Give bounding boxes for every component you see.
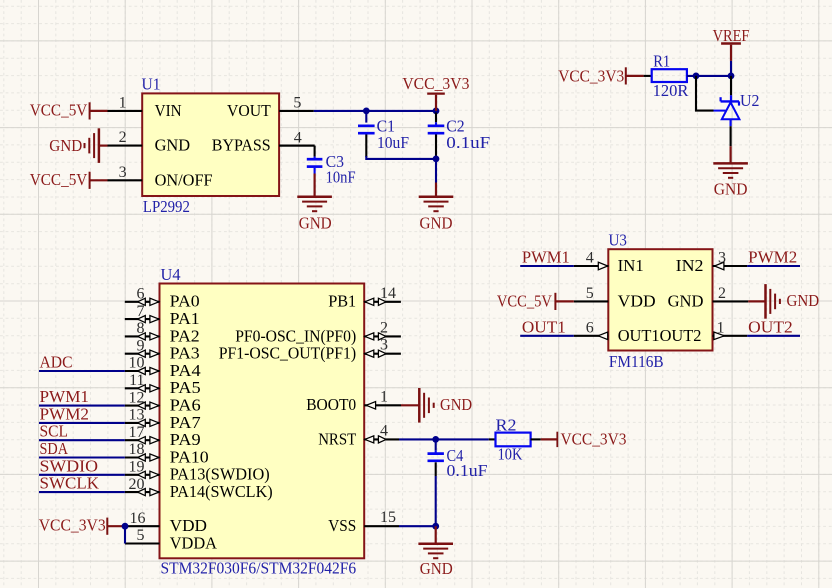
svg-text:IN1: IN1 bbox=[618, 256, 644, 275]
svg-text:5: 5 bbox=[586, 285, 594, 302]
svg-text:VCC_3V3: VCC_3V3 bbox=[561, 429, 627, 448]
U4 pin 9 PA3 bbox=[125, 353, 160, 355]
wire PWM1 bbox=[39, 405, 125, 407]
wire R1 to VREF node bbox=[687, 75, 731, 77]
wire junction to U2 reference bbox=[696, 76, 714, 111]
U3 pin 5 VDD bbox=[574, 300, 609, 302]
svg-text:PA7: PA7 bbox=[170, 413, 201, 432]
U4 pin 10 PA4 bbox=[125, 370, 160, 372]
U4 pin 11 PA5 bbox=[125, 387, 160, 389]
svg-text:LP2992: LP2992 bbox=[143, 197, 190, 216]
svg-text:PF1-OSC_OUT(PF1): PF1-OSC_OUT(PF1) bbox=[219, 344, 357, 363]
resistor R2 bbox=[496, 433, 531, 447]
svg-text:GND: GND bbox=[714, 179, 748, 198]
svg-text:120R: 120R bbox=[653, 81, 689, 100]
U4 pin 2 PF0-OSC_IN bbox=[364, 335, 401, 337]
svg-text:PF0-OSC_IN(PF0): PF0-OSC_IN(PF0) bbox=[235, 326, 356, 345]
capacitor C4 bbox=[435, 439, 437, 450]
U3 pin 2 GND bbox=[713, 300, 749, 302]
svg-text:1: 1 bbox=[119, 95, 127, 112]
wire SWCLK bbox=[39, 491, 125, 493]
U1 pin 5 VOUT bbox=[279, 110, 314, 112]
svg-text:15: 15 bbox=[380, 509, 396, 526]
U4 pin 3 PF1-OSC_OUT bbox=[364, 353, 401, 355]
U3 pin 1 OUT2 bbox=[713, 335, 748, 337]
wire junction to U2 cathode bbox=[730, 76, 732, 95]
svg-text:OUT1: OUT1 bbox=[522, 318, 566, 337]
svg-text:20: 20 bbox=[129, 476, 145, 493]
U4 pin 15 VSS bbox=[364, 525, 399, 527]
svg-text:0.1uF: 0.1uF bbox=[447, 461, 488, 480]
svg-text:PWM1: PWM1 bbox=[40, 387, 90, 406]
wire C4 to VSS bbox=[435, 476, 437, 526]
svg-text:GND: GND bbox=[440, 395, 472, 414]
U1 pin 3 ON/OFF bbox=[108, 179, 143, 181]
svg-text:5: 5 bbox=[293, 95, 301, 112]
svg-text:PA3: PA3 bbox=[170, 344, 200, 363]
svg-text:PA13(SWDIO): PA13(SWDIO) bbox=[170, 465, 270, 484]
wire SWDIO bbox=[39, 474, 125, 476]
svg-text:VDDA: VDDA bbox=[170, 533, 217, 552]
U4 pin 14 PB1 bbox=[364, 301, 401, 303]
U4 pin 4 NRST bbox=[364, 438, 399, 440]
svg-text:VCC_3V3: VCC_3V3 bbox=[39, 515, 106, 534]
wire ADC bbox=[39, 370, 125, 372]
wire SDA bbox=[39, 456, 125, 458]
svg-text:PWM2: PWM2 bbox=[748, 248, 797, 267]
wire PWM1 to U3 bbox=[520, 265, 574, 267]
power port GND below C2 bbox=[435, 183, 437, 197]
svg-text:6: 6 bbox=[137, 286, 145, 303]
svg-text:VOUT: VOUT bbox=[227, 101, 271, 120]
svg-text:0.1uF: 0.1uF bbox=[446, 133, 490, 152]
svg-text:IN2: IN2 bbox=[676, 256, 704, 275]
capacitor C1 bbox=[365, 111, 367, 123]
node junction VSS bbox=[432, 523, 439, 530]
U4 pin 12 PA6 bbox=[125, 405, 160, 407]
capacitor C3 bbox=[279, 145, 315, 147]
svg-text:PA10: PA10 bbox=[170, 447, 209, 466]
svg-text:PB1: PB1 bbox=[328, 292, 356, 311]
node junction VDD bbox=[122, 523, 129, 530]
svg-text:PA5: PA5 bbox=[170, 378, 201, 397]
power port GND at BOOT0 bbox=[401, 404, 419, 406]
node junction ref bbox=[693, 73, 700, 80]
svg-text:6: 6 bbox=[586, 319, 594, 336]
power port VCC_3V3 at R2 bbox=[541, 438, 558, 440]
power port GND at U3 pin 2 bbox=[748, 300, 765, 302]
svg-text:2: 2 bbox=[380, 319, 388, 336]
svg-text:PA14(SWCLK): PA14(SWCLK) bbox=[170, 482, 273, 501]
svg-text:NRST: NRST bbox=[318, 429, 356, 448]
svg-text:11: 11 bbox=[129, 372, 144, 389]
svg-text:5: 5 bbox=[137, 527, 145, 544]
svg-text:R1: R1 bbox=[653, 51, 670, 70]
svg-text:SWDIO: SWDIO bbox=[40, 456, 99, 475]
svg-text:VCC_5V: VCC_5V bbox=[497, 291, 552, 310]
svg-text:OUT2: OUT2 bbox=[748, 318, 793, 337]
IC U3 body (FM116B) bbox=[608, 249, 712, 350]
svg-text:U3: U3 bbox=[609, 230, 627, 249]
wire into R2 bbox=[489, 438, 496, 440]
capacitor C2 bbox=[435, 113, 437, 123]
svg-text:OUT2: OUT2 bbox=[660, 326, 702, 345]
U4 pin 20 PA14(SWCLK) bbox=[125, 491, 160, 493]
svg-text:2: 2 bbox=[119, 129, 127, 146]
svg-text:2: 2 bbox=[718, 285, 726, 302]
svg-text:OUT1: OUT1 bbox=[618, 326, 660, 345]
svg-text:PA4: PA4 bbox=[170, 361, 201, 380]
svg-text:9: 9 bbox=[137, 337, 145, 354]
svg-text:PWM1: PWM1 bbox=[522, 248, 570, 267]
U4 pin 6 PA0 bbox=[125, 301, 160, 303]
node junction NRST/C4 bbox=[432, 436, 439, 443]
power port GND below C3 bbox=[314, 174, 316, 197]
svg-text:3: 3 bbox=[380, 337, 388, 354]
U4 pin 17 PA9 bbox=[125, 439, 160, 441]
op-amp U1 body (LP2992 regulator) bbox=[142, 93, 279, 196]
wire VOUT net bbox=[314, 110, 436, 112]
svg-text:GND: GND bbox=[787, 291, 820, 310]
U3 pin 3 IN2 bbox=[713, 265, 748, 267]
wire R2 to VCC_3V3 bbox=[531, 438, 541, 440]
svg-text:VCC_3V3: VCC_3V3 bbox=[402, 74, 469, 93]
svg-text:12: 12 bbox=[129, 389, 145, 406]
svg-text:VCC_5V: VCC_5V bbox=[30, 170, 88, 189]
wire VREF to junction bbox=[730, 61, 732, 76]
svg-text:FM116B: FM116B bbox=[609, 352, 664, 371]
svg-text:4: 4 bbox=[586, 250, 594, 267]
svg-text:GND: GND bbox=[49, 136, 82, 155]
svg-text:U2: U2 bbox=[740, 91, 759, 110]
svg-text:PA2: PA2 bbox=[170, 326, 200, 345]
svg-text:U4: U4 bbox=[161, 265, 181, 284]
svg-text:18: 18 bbox=[129, 441, 145, 458]
U1 pin 2 GND bbox=[108, 145, 143, 147]
U4 pin 8 PA2 bbox=[125, 335, 160, 337]
node junction VREF bbox=[728, 73, 735, 80]
svg-text:GND: GND bbox=[668, 291, 704, 310]
svg-text:STM32F030F6/STM32F042F6: STM32F030F6/STM32F042F6 bbox=[161, 559, 357, 578]
svg-text:U1: U1 bbox=[142, 74, 161, 93]
svg-text:3: 3 bbox=[718, 250, 726, 267]
svg-text:PWM2: PWM2 bbox=[40, 404, 90, 423]
wire VSS to junction bbox=[399, 525, 436, 527]
svg-text:10nF: 10nF bbox=[326, 167, 356, 186]
MCU U4 body (STM32F030F6) bbox=[160, 284, 365, 559]
svg-text:PA0: PA0 bbox=[170, 292, 200, 311]
svg-text:10uF: 10uF bbox=[377, 133, 409, 152]
svg-text:SCL: SCL bbox=[40, 422, 69, 441]
U4 pin 13 PA7 bbox=[125, 422, 160, 424]
wire OUT2 from U3 bbox=[747, 335, 800, 337]
wire VDD to VDDA bbox=[124, 526, 126, 543]
svg-text:13: 13 bbox=[129, 407, 145, 424]
svg-text:14: 14 bbox=[380, 285, 396, 302]
svg-text:1: 1 bbox=[380, 388, 388, 405]
svg-text:7: 7 bbox=[137, 303, 145, 320]
wire PWM2 bbox=[39, 422, 125, 424]
svg-text:VCC_5V: VCC_5V bbox=[30, 100, 88, 119]
U4 pin 7 PA1 bbox=[125, 318, 160, 320]
svg-text:3: 3 bbox=[119, 164, 127, 181]
svg-text:GND: GND bbox=[155, 136, 191, 155]
node junction C2 bottom bbox=[433, 156, 440, 163]
U4 pin 19 PA13(SWDIO) bbox=[125, 474, 160, 476]
wire C2 bottom to GND bbox=[435, 159, 437, 183]
U4 pin 1 BOOT0 bbox=[364, 404, 401, 406]
svg-text:VDD: VDD bbox=[170, 516, 207, 535]
wire PWM2 from U3 bbox=[747, 265, 800, 267]
svg-text:4: 4 bbox=[294, 129, 302, 146]
svg-text:GND: GND bbox=[420, 559, 453, 578]
svg-text:PA1: PA1 bbox=[170, 309, 200, 328]
svg-text:10: 10 bbox=[129, 355, 145, 372]
shunt reference U2 (zener symbol) bbox=[730, 95, 732, 101]
wire NRST net bbox=[399, 438, 489, 440]
svg-text:PA9: PA9 bbox=[170, 430, 201, 449]
svg-text:VSS: VSS bbox=[328, 516, 356, 535]
svg-text:8: 8 bbox=[137, 320, 145, 337]
wire C1 to C2 bottom bbox=[366, 156, 436, 159]
U3 pin 6 OUT1 bbox=[574, 335, 609, 337]
svg-text:BOOT0: BOOT0 bbox=[306, 395, 356, 414]
svg-text:16: 16 bbox=[130, 510, 146, 527]
svg-text:R2: R2 bbox=[496, 415, 517, 434]
U4 pin 18 PA10 bbox=[125, 456, 160, 458]
svg-text:1: 1 bbox=[717, 319, 725, 336]
power port GND below U2 bbox=[729, 146, 731, 163]
wire SCL bbox=[39, 439, 125, 441]
svg-text:ON/OFF: ON/OFF bbox=[155, 170, 213, 189]
U3 pin 4 IN1 bbox=[574, 265, 609, 267]
svg-text:SDA: SDA bbox=[40, 439, 69, 458]
svg-text:GND: GND bbox=[420, 214, 453, 233]
wire to R1 bbox=[644, 75, 652, 77]
U1 pin 4 BYPASS bbox=[279, 145, 315, 147]
svg-text:VCC_3V3: VCC_3V3 bbox=[558, 66, 624, 85]
svg-text:PA6: PA6 bbox=[170, 396, 201, 415]
resistor R1 bbox=[652, 69, 687, 82]
svg-text:17: 17 bbox=[129, 424, 145, 441]
svg-text:ADC: ADC bbox=[40, 353, 73, 372]
svg-text:4: 4 bbox=[380, 422, 388, 439]
svg-text:SWCLK: SWCLK bbox=[40, 474, 100, 493]
svg-text:19: 19 bbox=[129, 459, 145, 476]
svg-text:VDD: VDD bbox=[618, 291, 656, 310]
U4 pin 5 VDDA bbox=[125, 542, 160, 544]
node junction at C1 bbox=[363, 108, 370, 115]
wire U2 anode to GND bbox=[730, 126, 732, 146]
wire OUT1 to U3 bbox=[520, 335, 574, 337]
svg-text:GND: GND bbox=[299, 214, 332, 233]
node junction at C2/VCC_3V3 bbox=[433, 108, 440, 115]
svg-text:BYPASS: BYPASS bbox=[212, 136, 271, 155]
svg-text:10K: 10K bbox=[498, 444, 523, 463]
power port GND below VSS bbox=[435, 526, 437, 544]
U1 pin 1 VIN bbox=[108, 110, 143, 112]
svg-text:VIN: VIN bbox=[155, 101, 182, 120]
U4 pin 16 VDD bbox=[125, 525, 160, 527]
